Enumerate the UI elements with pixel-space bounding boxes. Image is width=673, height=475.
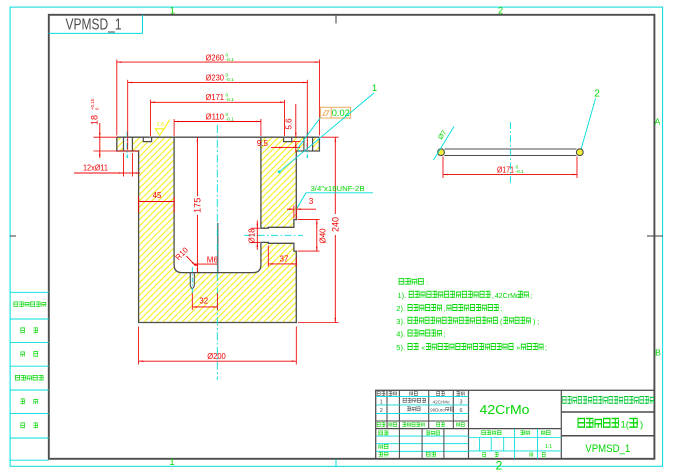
dimension ø230 extension lines	[127, 80, 129, 150]
svg-text:2: 2	[380, 408, 383, 414]
drawing number box VPMSD_1	[49, 32, 143, 34]
svg-text:1: 1	[380, 399, 383, 405]
svg-text:175: 175	[192, 198, 202, 213]
zone tick right	[647, 235, 663, 237]
svg-text:37: 37	[280, 254, 289, 263]
svg-text:1.6: 1.6	[157, 122, 165, 128]
svg-text:B: B	[655, 348, 661, 358]
dimension 37 extension lines	[267, 246, 269, 267]
svg-text:Ø110: Ø110	[206, 112, 225, 122]
left margin label jiu-di-tu-zong-hao	[15, 375, 20, 380]
svg-text:0.02: 0.02	[332, 108, 350, 118]
title block outline	[376, 390, 655, 459]
dimension ø40	[316, 220, 318, 252]
dimension ø260	[117, 61, 320, 63]
middle tuyangbiaoji	[482, 430, 486, 435]
dimension ø230	[128, 81, 308, 83]
center bore edge line	[217, 223, 219, 273]
svg-text:42CrMo: 42CrMo	[495, 293, 520, 300]
zone tick top	[335, 16, 337, 24]
part 1 outline	[117, 137, 320, 322]
dimension 37	[268, 263, 296, 265]
dimension 12xø11 extension lines	[123, 153, 125, 177]
left O-ring groove	[143, 137, 151, 141]
right bolt hole ø11	[304, 137, 313, 151]
svg-text:;: ;	[500, 306, 502, 313]
title block middle section lines	[469, 437, 562, 439]
svg-text:9.5: 9.5	[257, 139, 269, 148]
parts table header xuhao	[377, 391, 381, 395]
svg-text:-0.1: -0.1	[226, 97, 235, 103]
svg-text:45: 45	[153, 191, 162, 200]
dimension 32 extension lines	[191, 293, 193, 310]
middle bili	[541, 431, 545, 435]
svg-text:Ø200: Ø200	[207, 351, 226, 361]
svg-text:240: 240	[330, 217, 340, 232]
svg-text:32: 32	[199, 297, 208, 306]
company name	[562, 396, 566, 404]
port centerline horizontal	[244, 234, 303, 236]
left margin label jie-tong-yong-jian-deng-ji	[14, 302, 19, 307]
thread note 3/4-16UNF-2B leader	[306, 192, 373, 194]
svg-text:M6: M6	[207, 255, 219, 264]
middle zhongliang	[521, 430, 525, 435]
svg-text:A: A	[655, 117, 661, 127]
svg-text:42CrMo: 42CrMo	[432, 399, 449, 405]
parts table header cailiao	[436, 391, 440, 395]
parts table header beizhu	[389, 391, 393, 395]
label M6 leader	[194, 263, 219, 265]
svg-text::: :	[426, 279, 428, 286]
title block right section lines	[561, 411, 654, 413]
zone tick bottom	[335, 459, 337, 467]
title block signature area lines	[376, 435, 469, 437]
dimension 240	[334, 137, 336, 322]
svg-text:3/4"x16UNF-2B: 3/4"x16UNF-2B	[311, 184, 365, 193]
middle gong ye	[483, 452, 486, 457]
svg-text:Ø230: Ø230	[206, 72, 225, 82]
dimension ø200	[139, 360, 297, 362]
svg-text:1).: 1).	[398, 291, 407, 300]
O-ring centerline	[509, 122, 511, 183]
dimension 12xø11	[74, 172, 124, 174]
svg-text:;: ;	[444, 332, 446, 339]
svg-text:«: «	[421, 345, 425, 352]
left bolt centerline	[126, 132, 128, 159]
dimension ø171	[151, 101, 285, 103]
signature riqi	[426, 452, 430, 457]
dimension ø171 O-ring	[443, 173, 577, 175]
dimension 45	[139, 201, 175, 203]
svg-text:VPMSD_1: VPMSD_1	[585, 443, 630, 455]
flatness tolerance frame 0.02	[320, 107, 350, 118]
dimension 3 extension lines	[293, 206, 295, 219]
svg-text:Ø18: Ø18	[248, 228, 257, 244]
svg-text:Ø171: Ø171	[497, 165, 514, 174]
svg-text:3).: 3).	[396, 317, 405, 326]
dimension ø110 extension lines	[173, 119, 175, 136]
part centerline vertical	[216, 125, 218, 380]
svg-text:-0.1: -0.1	[226, 57, 235, 63]
left margin label xiao-he	[21, 352, 25, 357]
left bolt hole ø11	[124, 137, 133, 151]
M6 hole centerline	[191, 267, 193, 294]
svg-text:3: 3	[459, 399, 462, 405]
dimension ø110	[174, 121, 261, 123]
svg-text:1:1: 1:1	[545, 444, 552, 450]
svg-text:1(: 1(	[621, 420, 630, 431]
middle di ye	[530, 453, 533, 457]
part title guanchachuang-dizuo-1-xia	[578, 418, 586, 428]
svg-text:;: ;	[530, 293, 532, 300]
parts table row biaoji	[377, 422, 381, 426]
svg-text:,: ,	[492, 293, 494, 300]
svg-text:1: 1	[169, 457, 174, 467]
dimension ø40 extension lines	[298, 219, 320, 221]
signature shiji	[379, 431, 383, 436]
zone tick left	[10, 235, 16, 237]
part 2 O-ring right section circle	[576, 149, 583, 156]
dimension ø200 extension lines	[138, 327, 140, 365]
part 1 section hatch fill	[117, 137, 320, 322]
svg-text:2: 2	[498, 6, 503, 16]
dimension ø171 extension lines	[150, 100, 152, 136]
svg-text:,: ,	[444, 306, 446, 313]
dimension 5.6	[295, 104, 297, 137]
svg-text:»: »	[516, 345, 520, 352]
svg-text:Ø260: Ø260	[206, 52, 225, 62]
dimension 45 extension overlays	[138, 197, 140, 213]
svg-text:2).: 2).	[396, 304, 405, 313]
svg-text:Ø171: Ø171	[206, 92, 225, 102]
dimension R10 leader	[179, 248, 196, 266]
surface finish symbol	[155, 129, 164, 136]
svg-text:-0.1: -0.1	[516, 169, 525, 175]
svg-text:-0.1: -0.1	[226, 116, 235, 122]
svg-text:VPMSD_1: VPMSD_1	[66, 17, 122, 34]
svg-text:12xØ11: 12xØ11	[83, 164, 108, 173]
svg-text:5).: 5).	[396, 343, 405, 352]
parts table header shuliang	[456, 391, 460, 395]
dimension 9.5	[271, 146, 284, 148]
dimension 18 +0.15/0	[99, 123, 101, 158]
svg-text:4).: 4).	[396, 330, 405, 339]
svg-text:42CrMo: 42CrMo	[480, 403, 530, 417]
dimension ø171 O-ring extension lines	[442, 157, 444, 179]
label ø7 leader	[434, 127, 455, 161]
dimension ø260 extension lines	[116, 60, 118, 136]
svg-text:90Duro: 90Duro	[430, 408, 445, 413]
svg-text:2: 2	[496, 459, 503, 473]
dimension 18 extension lines	[94, 136, 118, 138]
dimension 5.6 extension line	[292, 141, 301, 143]
svg-text:5.6: 5.6	[285, 118, 294, 130]
dimension 32	[192, 306, 217, 308]
svg-text:) ;: ) ;	[533, 319, 539, 326]
part 2 O-ring left section circle	[438, 149, 445, 156]
svg-text:6: 6	[459, 408, 462, 414]
flatness leader	[298, 118, 321, 149]
part 2 O-ring body lines	[444, 148, 576, 150]
technical notes title	[399, 278, 405, 284]
svg-text:18: 18	[90, 115, 100, 125]
right bolt centerline	[306, 132, 308, 159]
svg-text:2: 2	[594, 89, 600, 100]
signature gongyi	[379, 452, 383, 457]
left margin label qian-zi	[21, 399, 25, 405]
signature shenhe	[379, 445, 383, 449]
dimension ø18 extension lines	[251, 227, 261, 229]
svg-text:1: 1	[372, 83, 377, 94]
svg-text:-0.1: -0.1	[226, 77, 235, 83]
dimension 175	[196, 137, 198, 272]
svg-text:3: 3	[309, 197, 314, 206]
svg-text:): )	[640, 420, 643, 431]
left margin field boxes	[11, 291, 49, 293]
svg-text:1: 1	[170, 6, 175, 16]
left margin label ri-qi	[21, 423, 25, 429]
dimension ø18	[256, 221, 258, 250]
svg-text:;: ;	[545, 345, 547, 352]
title block parts table cyan lines	[376, 395, 469, 397]
dimension 240 extension lines	[321, 136, 339, 138]
title block parts table dark lines	[386, 390, 388, 428]
M6 tapped hole	[190, 273, 194, 290]
left margin label miao-tu	[21, 328, 25, 334]
dimension 3	[287, 208, 294, 210]
signature biaozhunhua	[426, 431, 430, 436]
parts table header mingcheng	[409, 392, 413, 396]
svg-text:Ø40: Ø40	[318, 228, 327, 244]
right O-ring groove	[284, 137, 292, 141]
